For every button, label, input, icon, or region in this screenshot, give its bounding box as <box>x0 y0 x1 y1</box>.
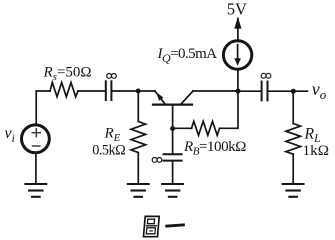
wire: current source to node C <box>237 69 239 91</box>
svg-text:1kΩ: 1kΩ <box>303 142 329 159</box>
capacitor C2 (base bypass, infinite): wire from node B <box>172 129 174 155</box>
label ∞ above C1 <box>107 74 117 79</box>
wire: node B to RB <box>173 127 192 129</box>
capacitor C3 (output, infinite) plates <box>262 82 268 101</box>
current source IQ inner arrow <box>237 45 239 59</box>
caption 圖 (Figure) <box>143 216 159 236</box>
vi plus sign <box>32 129 40 137</box>
wire: C3 to output node D <box>268 90 308 92</box>
wire: 5V supply lead <box>237 19 239 41</box>
source vi (circle) <box>22 125 50 153</box>
wire: node C to output capacitor <box>238 90 261 92</box>
transistor Q1 emitter arrow <box>156 92 163 101</box>
caption 一 (one) <box>165 225 185 226</box>
resistor RL <box>286 124 301 155</box>
resistor RB <box>192 121 220 135</box>
capacitor C1 (infinite) plates <box>106 81 112 100</box>
vi minus sign <box>33 145 40 147</box>
node C (collector node) junction dot <box>236 89 241 94</box>
current source IQ circle <box>223 41 251 69</box>
wire: vi to ground <box>35 153 37 184</box>
transistor Q1 base lead <box>172 105 174 129</box>
wire: node A down to RE <box>137 91 139 122</box>
wire: top-left corner from vi rail to Rs <box>36 91 50 125</box>
resistor Rs <box>50 83 78 97</box>
wire: Rs to input capacitor <box>78 90 105 92</box>
transistor Q1 emitter lead <box>155 91 166 105</box>
ground (C2) <box>162 184 183 197</box>
svg-text:0.5kΩ: 0.5kΩ <box>92 142 125 158</box>
svg-text:RB=100kΩ: RB=100kΩ <box>183 139 246 158</box>
transistor Q1 base bar <box>153 103 192 105</box>
wire: C1 to emitter node A <box>111 90 155 92</box>
label ∞ above C3 <box>261 73 271 78</box>
wire: RL to ground <box>292 154 294 184</box>
node D (output node) junction dot <box>291 89 296 94</box>
5V supply arrow <box>234 17 241 29</box>
wire: node D down to RL <box>292 91 294 123</box>
capacitor C2 plates <box>164 154 182 160</box>
svg-text:5V: 5V <box>227 0 247 19</box>
node B (base node) junction dot <box>170 126 175 131</box>
node A (emitter node) junction dot <box>136 89 141 94</box>
label ∞ beside C2 <box>152 158 162 163</box>
ground (vi) <box>25 184 46 197</box>
wire: RE to ground <box>137 153 139 185</box>
wire: collector to node C <box>193 90 238 92</box>
svg-text:Rs=50Ω: Rs=50Ω <box>43 65 92 84</box>
ground (RE) <box>128 184 149 197</box>
ground (RL) <box>283 184 304 197</box>
resistor RE <box>131 122 146 153</box>
transistor Q1 collector lead <box>181 91 194 105</box>
wire: C2 to ground <box>172 161 174 184</box>
wire: RB to collector node C <box>220 91 239 128</box>
